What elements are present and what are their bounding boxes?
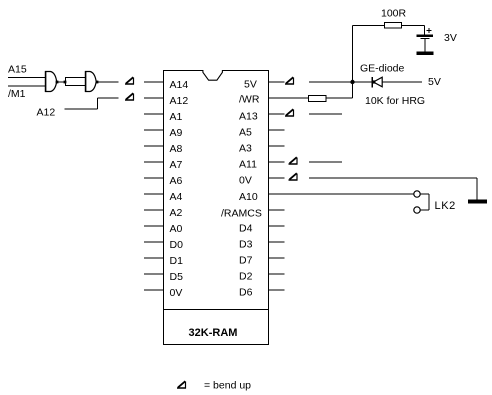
svg-text:/WR: /WR (239, 94, 260, 106)
svg-text:A9: A9 (170, 127, 183, 139)
svg-text:A8: A8 (170, 143, 183, 155)
svg-text:100R: 100R (381, 8, 407, 20)
svg-text:D0: D0 (170, 239, 184, 251)
svg-text:A12: A12 (170, 95, 189, 107)
svg-text:D4: D4 (239, 223, 253, 235)
svg-text:A14: A14 (170, 79, 189, 91)
svg-text:10K for HRG: 10K for HRG (365, 95, 425, 107)
svg-text:A6: A6 (170, 175, 183, 187)
svg-text:3V: 3V (444, 32, 457, 44)
svg-text:A13: A13 (239, 111, 258, 123)
svg-text:= bend up: = bend up (204, 380, 251, 392)
svg-text:A10: A10 (239, 191, 258, 203)
svg-text:A4: A4 (170, 191, 183, 203)
svg-text:A12: A12 (37, 107, 56, 119)
svg-text:32K-RAM: 32K-RAM (189, 327, 238, 339)
svg-text:D2: D2 (239, 271, 253, 283)
svg-text:A5: A5 (239, 127, 252, 139)
svg-text:/M1: /M1 (8, 88, 26, 100)
svg-text:5V: 5V (244, 79, 257, 91)
svg-text:LK2: LK2 (435, 200, 456, 212)
svg-text:5V: 5V (428, 76, 441, 88)
svg-text:D1: D1 (170, 255, 184, 267)
svg-text:/RAMCS: /RAMCS (221, 208, 262, 220)
svg-text:GE-diode: GE-diode (360, 63, 405, 75)
svg-text:D5: D5 (170, 271, 184, 283)
svg-text:A0: A0 (170, 223, 183, 235)
svg-text:A1: A1 (170, 111, 183, 123)
svg-text:A7: A7 (170, 159, 183, 171)
svg-text:D3: D3 (239, 239, 253, 251)
svg-text:D7: D7 (239, 255, 253, 267)
svg-text:A3: A3 (239, 143, 252, 155)
svg-text:D6: D6 (239, 287, 253, 299)
svg-text:0V: 0V (239, 175, 252, 187)
svg-text:A2: A2 (170, 207, 183, 219)
svg-text:A11: A11 (239, 159, 257, 171)
svg-text:0V: 0V (170, 287, 183, 299)
svg-text:A15: A15 (8, 64, 27, 76)
